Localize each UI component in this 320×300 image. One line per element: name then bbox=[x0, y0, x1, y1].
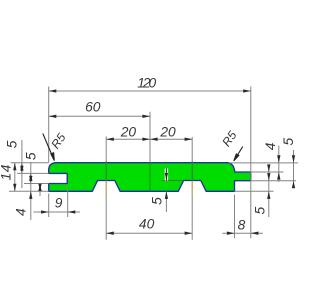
svg-text:9: 9 bbox=[55, 196, 63, 211]
svg-text:5: 5 bbox=[281, 137, 296, 145]
svg-text:5: 5 bbox=[4, 140, 19, 148]
svg-text:8: 8 bbox=[238, 217, 246, 232]
svg-text:120: 120 bbox=[137, 76, 156, 91]
svg-text:60: 60 bbox=[85, 100, 101, 115]
svg-text:20: 20 bbox=[159, 124, 176, 139]
svg-text:20: 20 bbox=[120, 124, 137, 139]
svg-text:14: 14 bbox=[0, 164, 13, 180]
svg-text:4: 4 bbox=[263, 142, 278, 150]
svg-text:5: 5 bbox=[23, 152, 38, 160]
svg-text:4: 4 bbox=[14, 208, 29, 216]
svg-text:5: 5 bbox=[149, 197, 164, 205]
svg-text:40: 40 bbox=[139, 217, 155, 232]
svg-text:5: 5 bbox=[253, 206, 268, 214]
